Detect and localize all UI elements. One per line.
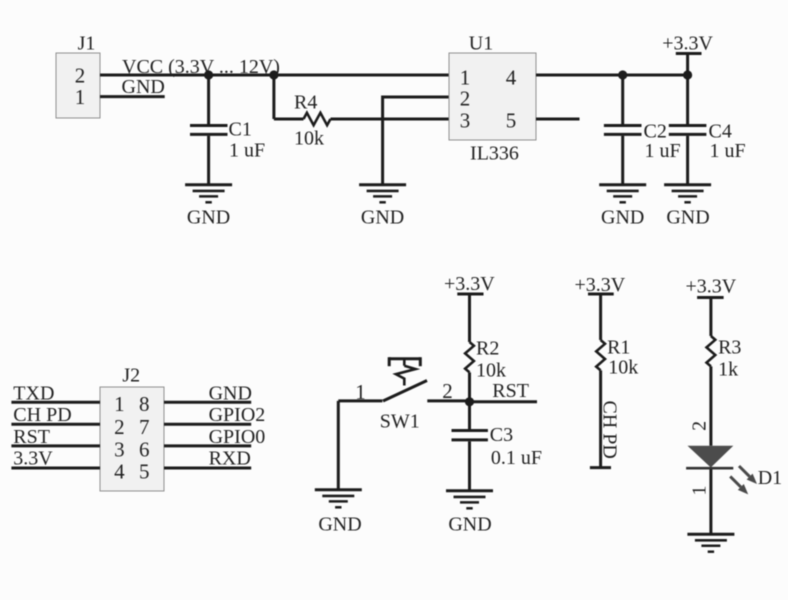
- svg-text:GPIO0: GPIO0: [209, 426, 266, 448]
- svg-text:10k: 10k: [476, 360, 506, 382]
- power +3.3V R3: [686, 276, 737, 337]
- wire SW1 pin1 to ground: [337, 401, 340, 490]
- ground under U1 pin2: [359, 185, 406, 229]
- capacitor C1: [190, 75, 265, 185]
- svg-text:1: 1: [75, 85, 86, 109]
- junction node C2: [618, 70, 627, 79]
- resistor R2: [465, 338, 506, 403]
- svg-text:4: 4: [506, 66, 517, 90]
- wire U1 pin4 rail: [536, 74, 688, 77]
- svg-text:5: 5: [139, 460, 150, 484]
- svg-text:3: 3: [460, 109, 471, 133]
- ground under C3: [446, 491, 493, 536]
- IC U1 IL336: [449, 33, 536, 165]
- svg-text:GND: GND: [448, 514, 491, 536]
- ground under C4: [664, 185, 711, 229]
- svg-text:RST: RST: [13, 426, 50, 448]
- wire 3.3V: [11, 467, 100, 470]
- svg-text:0.1 uF: 0.1 uF: [491, 447, 542, 469]
- svg-text:+3.3V: +3.3V: [686, 276, 737, 298]
- svg-text:D1: D1: [758, 467, 782, 489]
- svg-text:GND: GND: [122, 76, 165, 98]
- svg-text:GPIO2: GPIO2: [209, 404, 266, 426]
- svg-text:SW1: SW1: [380, 411, 420, 433]
- power +3.3V top: [662, 33, 713, 76]
- svg-text:R2: R2: [476, 338, 499, 360]
- svg-text:4: 4: [114, 460, 125, 484]
- LED D1: [686, 446, 782, 534]
- svg-text:2: 2: [75, 64, 86, 88]
- svg-text:GND: GND: [601, 207, 644, 229]
- svg-text:2: 2: [688, 421, 710, 431]
- LED arrow 2: [730, 476, 748, 494]
- svg-text:CH PD: CH PD: [599, 401, 621, 459]
- svg-text:GND: GND: [187, 207, 230, 229]
- junction node RST: [465, 397, 474, 406]
- svg-text:1 uF: 1 uF: [229, 140, 265, 162]
- svg-text:1: 1: [355, 380, 366, 404]
- svg-text:GND: GND: [666, 207, 709, 229]
- svg-text:7: 7: [139, 415, 150, 439]
- wire RXD: [164, 467, 251, 470]
- ground under C1: [185, 185, 232, 229]
- capacitor C3: [452, 402, 543, 491]
- svg-text:2: 2: [114, 415, 125, 439]
- resistor R4: [274, 75, 449, 150]
- svg-text:TXD: TXD: [13, 383, 54, 405]
- wire GND right: [164, 401, 251, 404]
- svg-text:R4: R4: [294, 92, 317, 114]
- svg-text:VCC (3.3V ... 12V): VCC (3.3V ... 12V): [122, 56, 280, 78]
- svg-text:C3: C3: [490, 424, 513, 446]
- svg-text:2: 2: [460, 87, 471, 111]
- svg-text:10k: 10k: [294, 128, 324, 150]
- resistor R1: [596, 337, 638, 468]
- connector J2: [100, 365, 164, 492]
- ground under D1: [687, 534, 734, 552]
- svg-text:CH PD: CH PD: [13, 404, 71, 426]
- svg-text:RXD: RXD: [209, 448, 251, 470]
- svg-text:5: 5: [506, 109, 517, 133]
- svg-text:C1: C1: [229, 119, 252, 141]
- wire GPIO2: [164, 423, 251, 426]
- svg-text:1 uF: 1 uF: [710, 140, 746, 162]
- svg-text:J2: J2: [122, 365, 140, 387]
- resistor R3: [707, 336, 742, 446]
- wire TXD: [11, 401, 100, 404]
- ground under SW1: [315, 490, 362, 536]
- svg-text:GND: GND: [209, 383, 252, 405]
- svg-text:RST: RST: [492, 380, 529, 402]
- connector J1: [56, 33, 100, 119]
- svg-text:J1: J1: [78, 33, 96, 55]
- junction node C1: [204, 70, 213, 79]
- capacitor C2: [604, 75, 681, 185]
- svg-text:R1: R1: [607, 337, 630, 359]
- svg-text:GND: GND: [361, 207, 404, 229]
- svg-text:R3: R3: [718, 337, 741, 359]
- capacitor C4: [669, 75, 746, 185]
- svg-text:1: 1: [688, 486, 710, 496]
- wire RST: [470, 400, 538, 403]
- wire end bar CH_PD: [590, 466, 611, 469]
- svg-text:6: 6: [139, 438, 150, 462]
- svg-text:GND: GND: [318, 514, 361, 536]
- wire U1 pin2 to ground: [383, 96, 449, 186]
- wire RST left: [11, 444, 100, 447]
- ground under C2: [599, 185, 646, 229]
- svg-text:+3.3V: +3.3V: [662, 33, 713, 55]
- junction node R4: [269, 70, 278, 79]
- svg-text:3.3V: 3.3V: [13, 448, 53, 470]
- svg-text:1 uF: 1 uF: [645, 140, 681, 162]
- svg-text:1k: 1k: [718, 359, 738, 381]
- svg-text:3: 3: [114, 438, 125, 462]
- svg-text:8: 8: [139, 392, 150, 416]
- LED arrow 1: [739, 466, 757, 484]
- svg-text:+3.3V: +3.3V: [444, 273, 495, 295]
- svg-text:U1: U1: [469, 33, 493, 55]
- junction node C4: [683, 70, 692, 79]
- power +3.3V R1: [575, 274, 626, 340]
- power +3.3V R2: [444, 273, 495, 342]
- wire GPIO0: [164, 444, 251, 447]
- switch SW1: [338, 357, 469, 432]
- svg-text:IL336: IL336: [470, 143, 519, 165]
- wire VCC rail J1 pin2 to U1 pin1: [100, 74, 449, 77]
- svg-text:10k: 10k: [608, 357, 638, 379]
- wire CH_PD: [11, 423, 100, 426]
- wire U1 pin5 stub: [536, 118, 580, 121]
- wire GND stub J1 pin1: [100, 95, 165, 98]
- svg-text:1: 1: [114, 392, 125, 416]
